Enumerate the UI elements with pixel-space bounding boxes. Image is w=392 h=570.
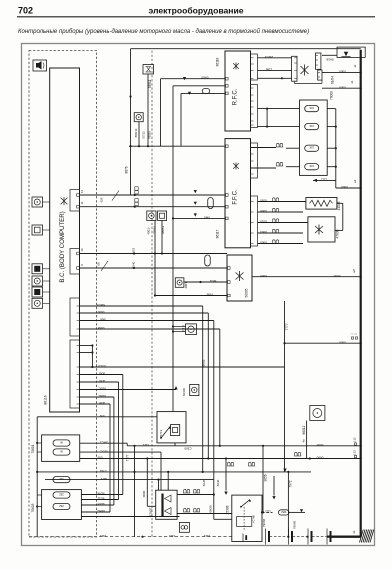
svg-text:W5Z: W5Z <box>281 510 287 513</box>
wire pin jumper2 <box>80 352 93 354</box>
sub box <box>237 517 252 527</box>
svg-text:в1: в1 <box>353 64 357 67</box>
wire into S1 b <box>158 480 160 491</box>
svg-text:0M30: 0M30 <box>209 505 213 513</box>
battery cell 4 <box>326 529 328 545</box>
wire row 458 <box>80 458 361 460</box>
svg-text:1186: 1186 <box>265 67 272 71</box>
svg-text:9D06: 9D06 <box>97 492 105 496</box>
vertical wire <box>160 79 162 147</box>
wire 7777 drop <box>134 446 136 537</box>
wire horn down <box>147 74 149 146</box>
diode symbol <box>183 77 186 80</box>
junction dot <box>141 536 143 538</box>
wire 0000 to bus b4 <box>336 187 361 189</box>
left vertical wire <box>36 417 38 537</box>
junction dot <box>129 95 131 97</box>
B.C. star symbol <box>61 197 68 205</box>
svg-text:7777: 7777 <box>285 323 289 330</box>
R.F.C. connector strip B <box>251 85 258 128</box>
svg-text:86117: 86117 <box>216 229 220 238</box>
fuse pair <box>276 162 283 166</box>
wire 0000 to bus e1 <box>322 71 361 73</box>
svg-text:15K: 15K <box>309 146 314 149</box>
F.F.C. star <box>233 163 239 170</box>
icon ticks <box>182 326 185 331</box>
wire C300 <box>127 445 361 447</box>
svg-text:0M8: 0M8 <box>204 215 210 219</box>
battery cell 1 <box>265 529 267 545</box>
resistor capsule <box>205 255 211 266</box>
R.F.C. connector strip A <box>251 54 258 80</box>
svg-text:86012: 86012 <box>302 425 306 434</box>
svg-text:1111: 1111 <box>204 534 210 538</box>
battery dashed link 2 <box>293 536 308 538</box>
wire 7972 <box>287 472 289 537</box>
wire 1111 link <box>262 511 273 513</box>
svg-text:C300: C300 <box>184 447 192 451</box>
dashed link <box>243 507 245 530</box>
svg-text:15K: 15K <box>309 106 314 109</box>
svg-text:86116: 86116 <box>43 395 47 404</box>
fuse pair <box>183 489 190 493</box>
fuse pair <box>294 452 301 456</box>
svg-text:0000: 0000 <box>333 274 340 278</box>
wire /960 <box>80 320 214 322</box>
wire 9D5C gauge <box>80 451 161 453</box>
svg-text:B.C. (BODY COMPUTER): B.C. (BODY COMPUTER) <box>59 211 66 282</box>
wire to RFC mid <box>173 85 225 87</box>
svg-text:57937: 57937 <box>149 507 153 516</box>
gauge box 70601 <box>42 435 80 462</box>
relay K glyph <box>236 271 244 281</box>
crossing slash <box>112 191 119 201</box>
svg-text:0000: 0000 <box>260 274 267 278</box>
svg-text:4а: 4а <box>302 439 306 443</box>
svg-text:в/2: в/2 <box>352 269 356 273</box>
svg-text:0000: 0000 <box>341 185 348 189</box>
svg-text:86118: 86118 <box>216 57 220 66</box>
svg-text:1111: 1111 <box>169 534 175 538</box>
vertical wire 8876 <box>130 49 132 195</box>
wire pin10 row <box>80 253 228 255</box>
svg-text:79068: 79068 <box>262 518 266 527</box>
svg-text:0000: 0000 <box>97 310 104 314</box>
svg-text:880/13: 880/13 <box>134 128 138 137</box>
fuse pair <box>272 208 279 212</box>
svg-text:12: 12 <box>80 190 84 194</box>
wire 1186 <box>258 69 292 71</box>
R.F.C. star <box>233 63 239 70</box>
svg-text:9D5C: 9D5C <box>97 387 106 391</box>
wire sensor down <box>138 122 140 147</box>
F.F.C. box <box>225 139 251 248</box>
battery cell 2 <box>288 529 290 545</box>
fuse pair <box>193 508 200 512</box>
wire 03C0 <box>80 366 285 368</box>
wire icons down <box>154 221 156 296</box>
battery cell 3 <box>307 529 309 545</box>
svg-text:72021: 72021 <box>153 226 157 234</box>
svg-text:Контрольные приборы (уровень-д: Контрольные приборы (уровень-давление мо… <box>18 28 309 35</box>
svg-text:0/5/: 0/5/ <box>97 456 102 460</box>
svg-text:1111: 1111 <box>100 534 106 538</box>
wire lamp 6 to B.C. <box>43 302 50 304</box>
wire 0761 <box>37 471 311 473</box>
svg-text:15K: 15K <box>309 164 314 167</box>
vertical wire <box>180 93 182 146</box>
connector pair symbol <box>135 199 138 202</box>
wire to RFC pin 2 <box>161 78 226 80</box>
wire lamp 2 to B.C. <box>43 229 50 231</box>
wire 0003 <box>258 232 304 234</box>
B.C. connector strip 12/11 <box>70 190 80 212</box>
wire 9D6C <box>80 396 114 398</box>
indicator lamp icon 6 <box>32 298 43 308</box>
wire lamp 3 to B.C. <box>43 268 50 270</box>
fuse pair <box>272 229 279 233</box>
diode symbol <box>194 190 197 193</box>
direction arrow box <box>337 47 365 57</box>
wire 7777 <box>284 301 286 472</box>
svg-text:0/6/: 0/6/ <box>99 414 104 418</box>
B.C. pin 11 <box>77 205 80 208</box>
wire FFC to resistor 4 <box>251 167 277 169</box>
svg-text:08: 08 <box>97 262 101 266</box>
svg-text:47030: 47030 <box>336 229 340 238</box>
resistor W2 <box>53 449 70 455</box>
wire pin12 row <box>80 194 226 196</box>
relay K glyph <box>315 225 323 235</box>
wire resistor1 to rail <box>327 108 336 110</box>
wire 0000 <box>80 312 209 314</box>
relay connector strip <box>292 56 297 81</box>
B.C. connector strip D <box>70 340 80 408</box>
svg-text:0000: 0000 <box>316 443 323 447</box>
gauge2 left stub <box>37 494 41 496</box>
svg-text:0030: 0030 <box>260 199 267 203</box>
junction dot <box>306 536 308 538</box>
svg-text:0000: 0000 <box>316 456 323 460</box>
svg-text:9D5/: 9D5/ <box>99 401 106 405</box>
wire 15Z row <box>45 479 214 481</box>
svg-text:9D6C: 9D6C <box>97 394 106 398</box>
wire RFC to resistor 2 <box>258 126 300 128</box>
vertical drop <box>207 313 209 459</box>
svg-text:70000: 70000 <box>330 91 334 100</box>
switch left pin <box>147 505 155 507</box>
svg-text:1111: 1111 <box>143 443 149 447</box>
fuse pair <box>272 198 279 202</box>
svg-text:в1: в1 <box>352 530 356 533</box>
vertical drop <box>202 306 204 472</box>
sensor icon 4001 <box>175 278 184 288</box>
wire 1111 stub <box>313 179 336 181</box>
resistor capsule 15K 4 <box>305 164 319 170</box>
resistor 25Z b <box>53 503 70 509</box>
svg-text:→ 53511: → 53511 <box>148 79 152 92</box>
diode symbol <box>188 92 191 95</box>
svg-text:25308: 25308 <box>225 505 229 514</box>
fuse pair <box>248 462 255 466</box>
switch glyph <box>241 500 250 507</box>
svg-text:1111: 1111 <box>265 510 271 514</box>
F.F.C. pin squares <box>226 145 229 148</box>
svg-text:702: 702 <box>18 6 33 16</box>
svg-text:7972: 7972 <box>289 480 293 487</box>
wire 0000 drop <box>146 459 148 507</box>
svg-text:0003: 0003 <box>260 230 267 234</box>
R.F.C. box <box>225 51 251 131</box>
buzzer icon box <box>33 60 47 71</box>
wire resistor4 to rail <box>327 166 336 168</box>
svg-text:5MC1: 5MC1 <box>100 440 108 444</box>
wire 5MC1 <box>80 442 128 444</box>
junction dot <box>133 252 135 254</box>
wire lamp 4 to B.C. <box>43 280 50 282</box>
svg-text:70601: 70601 <box>31 444 35 453</box>
resistor capsule K7B <box>208 198 214 209</box>
instrument cluster dashed boundary <box>29 51 97 538</box>
svg-text:9D6/: 9D6/ <box>99 372 106 376</box>
link wire 44043-47030 <box>337 202 343 204</box>
svg-text:0000: 0000 <box>339 85 346 89</box>
B.C. pin 10 <box>77 252 80 255</box>
resistor W1 <box>53 440 70 446</box>
fuse pair <box>183 508 190 512</box>
wire 9656 <box>262 446 264 513</box>
svg-text:70603: 70603 <box>31 503 35 512</box>
wire 9D5 <box>80 381 119 383</box>
termination arrow <box>283 469 286 472</box>
svg-text:8876: 8876 <box>125 166 129 173</box>
vertical rail 8602 <box>172 86 174 412</box>
svg-text:0005: 0005 <box>260 209 267 213</box>
resistor capsule 15K 2 <box>305 124 319 130</box>
svg-text:25Z: 25Z <box>59 493 64 497</box>
fuse pair <box>276 143 283 147</box>
wire pin11 row <box>80 206 226 208</box>
wire S1 row top <box>177 494 214 496</box>
gauge2 left stub2 <box>37 506 41 508</box>
pressure switch box 57937 <box>156 490 177 519</box>
wire FFC to resistor 3 <box>251 147 277 149</box>
relay K symbol <box>301 65 309 76</box>
junction dot <box>309 457 311 459</box>
svg-text:61/04: 61/04 <box>331 76 335 84</box>
svg-text:8602: 8602 <box>201 359 205 366</box>
svg-text:50005: 50005 <box>245 288 249 297</box>
ground symbol (hatched) <box>360 530 374 543</box>
diagram frame <box>22 44 375 546</box>
collector rail 70000 v <box>335 109 337 188</box>
50005 pin squares <box>228 267 231 270</box>
header rule <box>17 16 375 18</box>
svg-text:9D5C: 9D5C <box>99 449 108 453</box>
wire 0000 top run <box>131 48 361 50</box>
wire resistor2 to rail <box>327 126 336 128</box>
dashed boundary line (module 2) <box>151 51 153 538</box>
wire 5MC8 <box>80 305 203 307</box>
wire pin jumper <box>80 345 93 347</box>
svg-text:0000: 0000 <box>260 241 267 245</box>
fuse pair <box>272 219 279 223</box>
svg-text:1111: 1111 <box>321 178 327 182</box>
jumper vertical <box>91 346 93 368</box>
junction dot <box>262 445 264 447</box>
B.C. pin 12 <box>77 194 80 197</box>
svg-text:4001/: 4001/ <box>147 227 151 234</box>
wire S1 up <box>160 452 162 490</box>
indicator lamp icon 1 <box>32 197 43 207</box>
svg-text:R.F.C.: R.F.C. <box>233 88 239 105</box>
crossing slash <box>101 261 108 271</box>
direction arrow <box>344 52 349 57</box>
vertical drop to 25308 <box>213 321 215 520</box>
resistor box 44043 <box>306 198 337 210</box>
wire 0000 mid <box>285 342 361 344</box>
svg-text:44043: 44043 <box>337 201 341 210</box>
resistor capsule 15K 1 <box>305 106 319 112</box>
svg-text:9D11: 9D11 <box>97 497 104 501</box>
wire to RFC pin 1 <box>181 92 225 94</box>
svg-text:электрооборудование: электрооборудование <box>148 6 243 16</box>
wire lamp 1 to B.C. <box>43 201 50 203</box>
icon box bottom <box>179 522 189 532</box>
diode symbol <box>194 202 197 205</box>
resistor module box 70000 <box>300 100 328 175</box>
svg-text:15Z: 15Z <box>59 477 64 481</box>
switch box 25713 <box>157 412 186 443</box>
battery dashed link 3 <box>312 536 327 538</box>
wire resistor3 to rail <box>327 147 336 149</box>
svg-text:628: 628 <box>100 197 104 202</box>
svg-text:25713: 25713 <box>159 429 163 438</box>
switch sub icon <box>171 425 180 436</box>
svg-text:9D5/: 9D5/ <box>99 379 106 383</box>
svg-text:1.13: 1.13 <box>353 450 357 456</box>
svg-text:0000: 0000 <box>339 340 346 344</box>
wire to arrow box <box>322 54 337 56</box>
svg-text:6Z/1: 6Z/1 <box>101 477 107 481</box>
wire to icon2 <box>173 331 186 333</box>
wire 0005 <box>258 211 304 213</box>
svg-text:0000: 0000 <box>142 490 146 497</box>
wire 6811 <box>184 281 227 283</box>
svg-text:9656: 9656 <box>263 474 267 481</box>
wire pin9 row <box>80 267 228 269</box>
indicator lamp icon 4 <box>32 276 43 286</box>
termination arrow <box>174 386 177 389</box>
wire 2WC5 <box>258 57 292 59</box>
resistor capsule <box>202 89 210 94</box>
svg-text:0A1B: 0A1B <box>326 58 333 62</box>
wire 0000 to bus e1 second <box>322 87 361 89</box>
relay connector strip 3 <box>318 70 322 80</box>
resistor capsule 15K 3 <box>305 145 319 151</box>
wire lamp 5 to B.C. <box>43 291 50 293</box>
battery switch box 25308 <box>232 495 262 541</box>
relay box 50005 <box>227 255 252 301</box>
sensor icon box <box>186 324 197 335</box>
wire 0000 bottom of BC <box>37 416 157 418</box>
wire row 218 <box>173 217 225 219</box>
zigzag resistor <box>310 200 333 206</box>
svg-text:в1: в1 <box>350 80 354 83</box>
wire 9D6 <box>80 374 123 376</box>
pressure sensor glyph <box>163 494 172 517</box>
gauge left stub2 <box>37 451 41 453</box>
wire RFC to resistor 1 <box>258 108 300 110</box>
connector pair symbol <box>135 187 138 190</box>
arrow into box <box>225 459 227 491</box>
svg-text:8240: 8240 <box>216 479 220 486</box>
svg-text:6811: 6811 <box>209 279 216 283</box>
svg-text:03C0: 03C0 <box>98 364 106 368</box>
fuse pair <box>193 489 200 493</box>
wire C300 stub <box>174 443 176 446</box>
svg-text:0A60: 0A60 <box>201 76 208 80</box>
svg-text:F.F.C.: F.F.C. <box>233 189 239 205</box>
fuse pair <box>227 462 234 466</box>
svg-text:8245: 8245 <box>202 479 206 486</box>
indicator lamp icon 5 <box>32 287 43 297</box>
wire 0010 <box>258 222 308 224</box>
svg-text:9D5C: 9D5C <box>96 509 105 513</box>
svg-text:57/12: 57/12 <box>142 131 146 139</box>
ground bus bar <box>360 50 362 537</box>
sensor icon pair A <box>147 211 156 221</box>
svg-text:/960: /960 <box>100 318 106 322</box>
F.F.C. connector strip bottom <box>251 196 258 246</box>
switch contact <box>161 426 171 438</box>
indicator lamp icon 3 <box>32 264 43 274</box>
terminal squares <box>351 337 353 339</box>
svg-text:10: 10 <box>80 248 84 252</box>
inner cell <box>242 534 244 542</box>
svg-text:0088: 0088 <box>97 326 104 330</box>
svg-text:2WC5: 2WC5 <box>265 55 274 59</box>
svg-text:N0100: N0100 <box>182 387 186 396</box>
wire 0088 <box>80 328 220 330</box>
indicator lamp icon 2 <box>32 225 43 235</box>
wire 08C5 <box>258 77 292 79</box>
svg-text:в4: в4 <box>353 180 357 183</box>
fuse pair <box>272 240 279 244</box>
sensor icon 78026 <box>134 113 143 122</box>
svg-text:0010: 0010 <box>260 220 267 224</box>
B.C. body computer box <box>50 68 80 412</box>
svg-text:15K: 15K <box>309 124 314 127</box>
junction dot <box>134 194 136 196</box>
wire 9D5C <box>80 389 177 391</box>
wire 516 row <box>81 516 179 518</box>
svg-text:0000: 0000 <box>339 70 346 74</box>
wire S1 row bottom <box>177 513 232 515</box>
wire arrow 274 <box>273 476 275 496</box>
svg-text:79060: 79060 <box>292 520 296 529</box>
resistor capsule W5Z <box>278 510 289 515</box>
sensor icon pair B <box>158 211 167 221</box>
wire into S1 a <box>167 472 169 490</box>
svg-text:+C M0: +C M0 <box>252 515 256 523</box>
svg-text:1.12: 1.12 <box>353 437 357 443</box>
svg-text:11: 11 <box>80 201 84 204</box>
battery to bus <box>331 536 361 538</box>
wire to icon <box>173 326 186 328</box>
relay box 47030 <box>308 217 335 242</box>
svg-text:9D05: 9D05 <box>97 502 105 506</box>
